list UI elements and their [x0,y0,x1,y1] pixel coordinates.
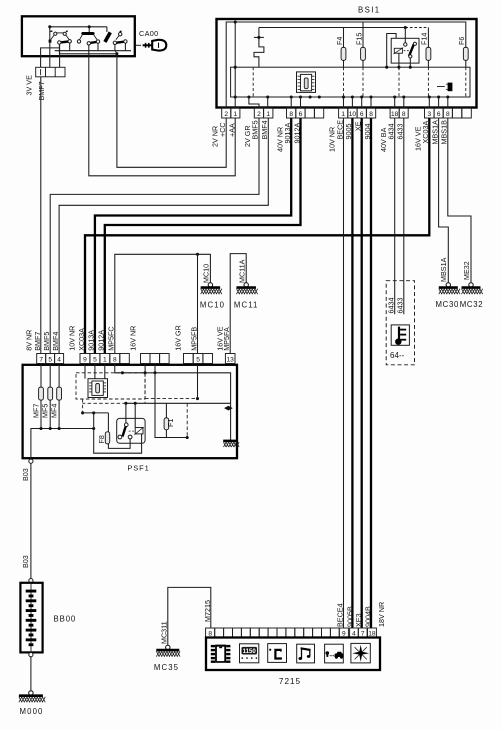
svg-text:BB00: BB00 [54,615,77,624]
ground MC30 [446,283,450,287]
stubs thick pins into glyph [84,364,86,379]
PSF1 pin connector 8V NR [37,354,46,364]
svg-text:MF7: MF7 [31,404,40,418]
wire +AA CA00 to BSI1 [89,45,235,176]
svg-text:F1: F1 [166,419,175,427]
svg-text:M7215: M7215 [203,600,212,622]
BSI1 pin connector 2V GR [254,108,263,118]
pin stub BMF5 jog [249,97,259,108]
ground M000 [29,691,33,695]
fuse F14 [427,28,429,48]
svg-text:MC30: MC30 [435,300,459,309]
BSI1 inner feed +AA [234,22,236,108]
pin stubs [267,97,269,108]
svg-text:4: 4 [57,356,61,363]
wire XC03A thick [85,118,429,354]
relay feed [404,28,406,43]
ground MC10 [208,283,212,287]
junction [234,66,237,69]
BSI1 pin connector 2V NR [222,108,231,118]
svg-text:MP5FB: MP5FB [189,327,198,351]
PSF1 pin 13 [225,354,235,364]
svg-text:9: 9 [83,356,87,363]
wire BMF5 [50,118,259,354]
ignition switch CA00 outer box [22,16,135,56]
relay pivot PSF1 [125,423,129,427]
svg-text:MC10: MC10 [201,264,210,283]
switch contact 2 (+CC ignition) [77,32,99,45]
connector glyph inside BSI1 strip [297,72,316,93]
strip bottom junctions and pin stubs [247,95,250,98]
relay feeds [125,403,127,423]
svg-text:F4: F4 [335,37,344,45]
wire MP5FC to ground MC10 [115,254,211,353]
svg-text:9004B: 9004B [363,606,372,627]
svg-text:10: 10 [349,111,357,118]
svg-text:BMF5: BMF5 [42,332,51,351]
svg-text:9: 9 [342,630,346,637]
icon ventilation star [351,643,370,663]
svg-text:BSI1: BSI1 [358,5,381,14]
svg-text:ME32: ME32 [462,261,471,280]
thermal sensor 64 dashed box [386,281,414,365]
connector 3-way below CA00 [36,67,65,77]
BSI1 inner top line 1 [226,22,466,108]
thermometer icon [395,327,406,345]
wire 6433 [403,118,405,314]
svg-text:3V VE: 3V VE [25,75,34,96]
PSF1 inner line A [115,364,231,404]
BSI1 outer box [217,19,477,108]
relay link dashes PSF1 [129,430,135,432]
svg-text:MBS1A: MBS1A [439,257,448,282]
svg-text:8: 8 [402,111,406,118]
svg-text:MP5FC: MP5FC [107,326,116,350]
wire 16V NR pin2 to F1 return [155,373,187,438]
ground MC32 [469,283,473,287]
relay in BSI1 coil feed L-wire [387,34,396,68]
svg-text:BMF7: BMF7 [37,81,46,100]
svg-text:7: 7 [361,630,365,637]
svg-text:8: 8 [208,630,212,637]
icon music note [297,644,315,663]
svg-text:5: 5 [196,356,200,363]
PSF1 internal ground [230,403,232,441]
svg-text:M000: M000 [20,707,44,716]
svg-text:7: 7 [39,356,43,363]
relay coil PSF1 [135,428,143,434]
svg-text:2: 2 [224,111,228,118]
dashed link from logic box [82,399,84,413]
BSI1 inner top line 2 [259,27,405,29]
svg-text:13: 13 [227,356,235,363]
svg-text:BECE4: BECE4 [335,603,344,627]
PSF1 connector glyph [88,379,108,398]
wire XE / XE3 thick [361,118,363,628]
svg-text:6434: 6434 [387,124,396,140]
svg-text:F8: F8 [97,435,106,443]
relay coil [394,48,402,53]
switch contact 3 (starter, key contact) [103,27,127,45]
sensor icon box [391,325,409,345]
PSF1 internal bus to B03 [31,429,94,459]
BSI1 pin connector 40V BA [390,108,399,118]
svg-text:XE3: XE3 [354,613,363,627]
junction [48,25,51,28]
battery BB00 [29,579,33,583]
svg-text:1: 1 [103,356,107,363]
svg-text:5: 5 [48,356,52,363]
svg-text:BECE: BECE [335,120,344,140]
svg-text:8: 8 [113,356,117,363]
icon temperature C [268,644,287,663]
svg-text:8: 8 [446,111,450,118]
wire 6434 [394,118,396,314]
fuse MF5 with feed [49,364,51,388]
svg-text:10V NR: 10V NR [68,326,77,351]
BSI1 pin connector 16V VE [425,108,435,118]
wire 9005 / 9005B thick [351,118,353,628]
svg-text:F6: F6 [457,37,466,45]
wire MBS1B / ME32 to ground MC32 [448,118,471,282]
svg-text:F15: F15 [354,33,363,45]
relay PSF1 box [117,418,145,443]
PSF1 inner line B [126,402,231,404]
junction [234,95,237,98]
PSF1 pin connector 10V NR [80,354,90,364]
svg-text:18: 18 [391,111,399,118]
svg-text:B03: B03 [21,555,30,568]
CA00 internal top distribution wire [50,26,107,28]
fuse F1 [165,403,167,418]
svg-text:F14: F14 [420,33,429,45]
svg-text:BMF4: BMF4 [260,120,269,139]
relay blade [409,45,414,57]
PSF1 pin connector 16V NR [141,354,151,364]
wire MBS1A to ground MC30 [439,118,449,282]
svg-text:MC311: MC311 [160,621,169,644]
wire +CC CA00 to BSI1 [117,54,226,168]
fuse MF7 with feed [40,364,42,388]
svg-text:6433: 6433 [396,298,405,314]
svg-text:B03: B03 [21,468,30,481]
svg-text:7215: 7215 [279,677,301,686]
svg-text:+CC: +CC [218,122,227,137]
fuse F6 [463,47,468,60]
relay contacts [413,42,416,45]
relay box [391,38,419,63]
svg-text:9013A: 9013A [87,330,96,351]
BSI1 pin connector 10V NR [339,108,348,118]
svg-text:6: 6 [299,111,303,118]
svg-text:MP5FA: MP5FA [222,327,231,351]
junction cross [254,36,264,38]
svg-text:6: 6 [437,111,441,118]
icon door-open / car [325,644,344,663]
ground MC35 [166,645,170,649]
wire 9013A thick [95,118,291,354]
svg-text:18: 18 [368,630,376,637]
7215 outer box [206,638,380,671]
svg-text:5: 5 [93,356,97,363]
relay pin stubs [398,53,400,67]
svg-text:6433: 6433 [396,124,405,140]
svg-text:1: 1 [341,111,345,118]
wire contact blade to connector pin3 [59,45,61,68]
junction [88,25,91,28]
dashed link to F1 return [186,403,188,437]
BSI1 step wire [254,28,264,68]
svg-text:8: 8 [289,111,293,118]
svg-text:MF4: MF4 [50,404,59,418]
svg-text:1: 1 [266,111,270,118]
relay blade PSF1 [123,426,126,436]
key symbol [135,40,167,51]
svg-text:2: 2 [257,111,261,118]
wire B03 with connector [29,459,33,463]
svg-text:MBS1A: MBS1A [430,120,439,145]
svg-text:PSF1: PSF1 [127,464,149,473]
svg-text:MC10: MC10 [200,301,225,310]
ground MC11 [244,283,248,287]
stub 16V NR pins [144,364,146,373]
wire from switch1 to connector pin1 [41,48,60,67]
svg-text:BMF4: BMF4 [51,332,60,351]
dashed link 16V NR cell [144,373,146,404]
switch contact 1 (accessories) [49,31,72,44]
dashed internal links in strip [343,67,345,97]
fuse F15 [362,22,364,47]
svg-text:4: 4 [352,630,356,637]
svg-text:1: 1 [234,111,238,118]
wire contact1 feed [49,41,51,68]
wire BMF4 [59,118,268,354]
svg-text:MBS1B: MBS1B [440,120,449,145]
svg-text:BMF5: BMF5 [251,120,260,139]
svg-text:BMF7: BMF7 [33,332,42,351]
wire BMF7 CA00 to PSF1 pin7 [40,77,42,354]
svg-text:CA00: CA00 [139,29,158,38]
svg-text:MC11A: MC11A [237,259,246,283]
icon display [240,644,259,663]
wire MP5FB [197,254,199,353]
junction [115,52,118,55]
svg-text:MC35: MC35 [154,663,179,672]
svg-text:16V GR: 16V GR [174,325,183,351]
relay lower wiring [108,439,130,449]
wire BECE / BECE4 [343,118,345,628]
7215 pin row [206,628,215,638]
svg-text:MF5: MF5 [41,404,50,418]
fuse F8 and feed [83,412,109,414]
output interface glyph near MBS pins [437,83,452,92]
fuse MF4 with feed [58,364,60,388]
svg-text:MC32: MC32 [460,300,484,309]
svg-text:XC03A: XC03A [77,328,86,351]
PSF1 dashed logic box [76,373,145,399]
relay link dashes [404,50,412,52]
svg-text:64--: 64-- [390,351,405,360]
relay pivot [404,43,407,46]
CA00 internal lower wire a [55,50,131,52]
CA00 internal lower wire b [59,53,117,55]
wire M7215 from 7215 pin8 to MC35 [168,587,211,645]
PSF1 outer box [23,365,237,458]
svg-text:8: 8 [369,111,373,118]
junction [234,20,237,23]
wire MP5FB internal stub [197,365,199,399]
svg-text:3: 3 [427,111,431,118]
wire MP5FA to ground MC11 [230,254,246,354]
svg-text:9012A: 9012A [97,330,106,351]
svg-text:MC11: MC11 [234,301,259,310]
BSI1 pin connector 40V NR [287,108,296,118]
fuse F4 [343,28,345,48]
icon chip [211,645,231,663]
svg-text:6: 6 [360,111,364,118]
BSI1 connector strip box [231,67,470,97]
dashed MP5FB link line [145,398,197,400]
svg-text:+AA: +AA [227,123,236,137]
junction MP5FB branch [196,253,199,256]
svg-text:1150: 1150 [243,648,257,655]
svg-text:18V NR: 18V NR [377,602,386,627]
wire to M000 [30,657,32,691]
PSF1 pin connector 16V GR [184,354,194,364]
wire 9012A thick [105,118,301,354]
svg-text:6434: 6434 [387,298,396,314]
wire 9004 / 9004B thick [370,118,372,628]
svg-text:16V NR: 16V NR [129,326,138,351]
